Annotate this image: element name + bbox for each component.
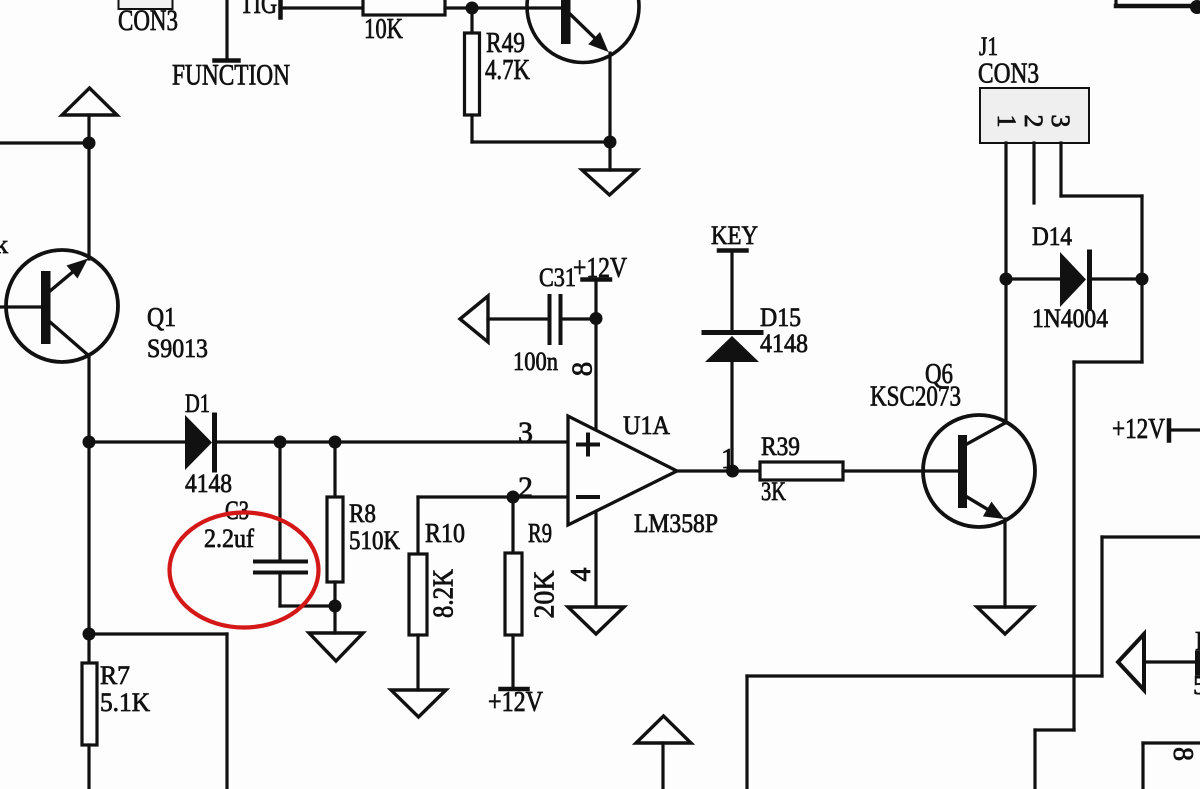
svg-text:FUNCTION: FUNCTION bbox=[172, 59, 290, 92]
wire right lower net bbox=[1102, 535, 1200, 538]
svg-text:2: 2 bbox=[1019, 115, 1048, 128]
ground (op-amp pin 4) bbox=[568, 607, 624, 634]
resistor R9 20K bbox=[511, 497, 514, 553]
svg-text:8: 8 bbox=[567, 362, 599, 377]
svg-text:2.2uf: 2.2uf bbox=[204, 524, 254, 553]
svg-text:CON3: CON3 bbox=[978, 59, 1039, 90]
wire left rail horizontal bbox=[0, 141, 89, 144]
diode D1 4148 bbox=[185, 415, 212, 470]
connector (bottom-right, cut off) bbox=[1141, 743, 1144, 789]
transistor (top, cut off) bbox=[527, 0, 639, 63]
wire op-amp pin4 to ground bbox=[594, 513, 597, 607]
diode D14 1N4004 bbox=[1006, 277, 1060, 280]
svg-text:S9013: S9013 bbox=[147, 334, 208, 363]
power arrow (C31 left) bbox=[460, 296, 488, 342]
wire right net down-steps bbox=[1140, 279, 1143, 362]
ground (below R8/C3) bbox=[309, 633, 363, 661]
svg-text:k: k bbox=[0, 230, 8, 259]
junction dot top-right bbox=[1190, 0, 1200, 14]
svg-text:R10: R10 bbox=[425, 518, 465, 548]
junction dot D14 anode bbox=[1000, 273, 1013, 286]
svg-text:+12V: +12V bbox=[573, 253, 627, 284]
svg-text:R9: R9 bbox=[528, 518, 552, 548]
svg-text:4148: 4148 bbox=[185, 469, 232, 498]
svg-text:20K: 20K bbox=[530, 571, 561, 619]
node KEY terminal bar bbox=[719, 248, 747, 253]
node +12V bar (right) bbox=[1167, 421, 1172, 441]
svg-text:KSC2073: KSC2073 bbox=[870, 381, 961, 413]
transistor Q1 S9013 bbox=[6, 250, 118, 362]
svg-text:8: 8 bbox=[1167, 747, 1198, 761]
svg-text:D15: D15 bbox=[760, 303, 801, 332]
capacitor C3 2.2uf bbox=[278, 442, 281, 560]
svg-text:J1: J1 bbox=[979, 32, 998, 61]
svg-text:8.2K: 8.2K bbox=[429, 569, 460, 618]
wire J1 pin3 bbox=[1059, 143, 1062, 196]
ground (below top transistor) bbox=[582, 170, 637, 195]
svg-text:3: 3 bbox=[1046, 115, 1075, 128]
connector J1 CON3 bbox=[980, 88, 1089, 143]
diode D15 4148 bbox=[704, 330, 761, 335]
power arrow (bottom-right) bbox=[1118, 634, 1144, 690]
junction dot C3/R8 ground bbox=[329, 600, 342, 613]
power +V arrow (bottom-center) bbox=[636, 716, 691, 743]
svg-text:LM358P: LM358P bbox=[634, 509, 718, 538]
junction dot 10K/R49 bbox=[466, 2, 479, 15]
svg-text:Q1: Q1 bbox=[147, 302, 176, 332]
node +12V bar (above C31) bbox=[583, 277, 611, 282]
svg-text:3: 3 bbox=[518, 416, 533, 449]
svg-text:KEY: KEY bbox=[711, 221, 758, 250]
svg-text:U1A: U1A bbox=[623, 411, 670, 440]
junction dot left rail bbox=[83, 137, 96, 150]
node FUNCTION terminal bar bbox=[215, 58, 239, 63]
resistor R10 8.2K bbox=[416, 497, 419, 554]
svg-text:1: 1 bbox=[721, 444, 735, 475]
svg-text:10K: 10K bbox=[364, 13, 403, 45]
junction dot C3 top bbox=[274, 436, 287, 449]
svg-text:D1: D1 bbox=[185, 389, 210, 418]
resistor (bottom-right, cut off) bbox=[1195, 653, 1200, 673]
svg-text:R8: R8 bbox=[349, 499, 376, 528]
wire 10K to transistor base bbox=[445, 6, 562, 9]
capacitor C31 100n bbox=[548, 296, 552, 343]
wire TIG to resistor 10K bbox=[282, 6, 363, 9]
svg-text:1: 1 bbox=[992, 115, 1021, 128]
svg-text:4148: 4148 bbox=[760, 329, 808, 358]
wire emitter node to bottom rail bbox=[89, 632, 227, 635]
resistor R39 3K bbox=[760, 462, 843, 480]
svg-text:4: 4 bbox=[566, 568, 597, 582]
resistor 10K (top, cut off) bbox=[363, 0, 445, 15]
junction dot emitter/ground bbox=[604, 136, 617, 149]
power +V arrow (top-left) bbox=[62, 88, 117, 115]
op-amp U1A LM358P bbox=[568, 416, 677, 525]
svg-text:100n: 100n bbox=[513, 347, 558, 376]
resistor R8 510K bbox=[333, 442, 336, 497]
svg-text:510K: 510K bbox=[349, 526, 400, 555]
wire main node row bbox=[89, 440, 185, 443]
ground (below R10) bbox=[391, 690, 446, 717]
ground (Q6 emitter) bbox=[977, 607, 1033, 634]
svg-text:R: R bbox=[1195, 626, 1200, 656]
resistor R7 5.1K bbox=[82, 663, 97, 745]
svg-text:R39: R39 bbox=[761, 432, 800, 461]
svg-text:5: 5 bbox=[1193, 670, 1200, 700]
wire J1 pin1 to Q6 collector bbox=[1004, 143, 1007, 423]
svg-text:+12V: +12V bbox=[488, 687, 543, 718]
svg-text:C31: C31 bbox=[539, 263, 576, 292]
wire top-right corner bbox=[1114, 0, 1117, 6]
junction dot D1 anode bbox=[83, 436, 96, 449]
transistor Q6 KSC2073 bbox=[923, 415, 1035, 527]
wire R49 to emitter node bbox=[472, 140, 610, 143]
junction dot R8 top bbox=[329, 436, 342, 449]
svg-text:2: 2 bbox=[518, 471, 533, 504]
svg-text:R7: R7 bbox=[100, 661, 130, 690]
svg-text:TIG: TIG bbox=[240, 0, 277, 20]
junction dot op-amp output bbox=[726, 465, 739, 478]
junction dot C31/+12V bbox=[590, 312, 603, 325]
svg-text:D14: D14 bbox=[1032, 222, 1072, 251]
junction dot R7 top bbox=[83, 628, 96, 641]
wire inverting input row bbox=[418, 495, 568, 498]
wire power to Q1 collector bbox=[87, 115, 90, 259]
connector CON3 (top-left, cut off) bbox=[119, 0, 173, 9]
resistor R49 4.7K bbox=[470, 8, 473, 33]
annotation red ellipse around C3 bbox=[170, 513, 319, 628]
junction dot R9 top bbox=[507, 491, 520, 504]
svg-text:1N4004: 1N4004 bbox=[1032, 304, 1108, 333]
node TIG terminal bar bbox=[278, 0, 283, 18]
wire J1 pin2 stub bbox=[1032, 143, 1035, 203]
wire op-amp output bbox=[677, 469, 760, 472]
svg-text:+12V: +12V bbox=[1112, 414, 1165, 445]
junction dot D14 cathode bbox=[1136, 273, 1149, 286]
wire FUNCTION stub vertical bbox=[225, 0, 228, 60]
svg-text:4.7K: 4.7K bbox=[485, 55, 530, 86]
wire Q1 emitter down bbox=[87, 355, 90, 663]
svg-text:5.1K: 5.1K bbox=[100, 688, 150, 717]
svg-text:CON3: CON3 bbox=[118, 4, 178, 37]
node +12V bar (below R9) bbox=[501, 687, 528, 692]
svg-text:3K: 3K bbox=[761, 477, 786, 506]
